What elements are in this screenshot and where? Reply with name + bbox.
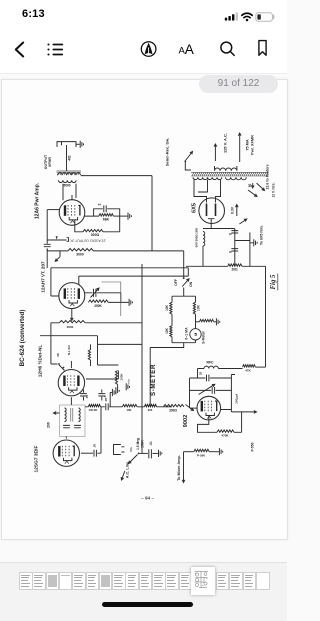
svg-text:9002: 9002 [183,415,189,427]
resistor R12 [85,404,101,406]
capacitor C10b IF [74,425,81,427]
meter M1 0-1 MA [195,322,197,329]
wire V4 grid top [70,361,72,368]
svg-text:S-Meter: S-Meter [201,330,205,343]
svg-text:RFC: RFC [207,361,215,365]
resistor R5 volume pot [59,320,85,322]
coil L2 RFC [198,366,243,368]
svg-text:5000: 5000 [63,184,70,188]
wire R11b to output node [234,412,242,432]
transformer T2 HV secondary winding [193,177,222,179]
wire HV secondary to V2 plates [194,180,221,203]
wire right vertical x128.9 [128,379,130,384]
wire bridge bottom edge [172,342,196,344]
svg-text:6X5: 6X5 [191,203,197,213]
resistor R14 300 ohm [137,404,172,406]
resistor R17 small vertical [88,344,90,366]
svg-text:20Ω: 20Ω [231,268,238,272]
choke L1 filter (vertical coil) [203,232,205,246]
svg-text:35: 35 [199,372,203,376]
svg-text:10K: 10K [126,408,131,412]
wire to ground [214,321,216,323]
wire T3 arrow [54,412,60,415]
wire junction column (node G1) [46,210,48,268]
svg-text:S-METER: S-METER [150,364,157,396]
wire T3 core [71,408,73,422]
wire R1 to ground [113,215,127,217]
wire right vertical (plate column) [231,375,235,412]
wire to mixer amp with arrow [182,452,185,483]
svg-text:75 MA: 75 MA [246,139,250,150]
svg-text:4Ω: 4Ω [67,155,71,160]
svg-text:To 6X5 htrs.: To 6X5 htrs. [260,225,264,245]
wire B+ from T1 to bus (node B+) [81,176,152,251]
svg-text:ON: ON [189,281,193,287]
transformer T1 output primary [58,173,81,175]
ground (screen) [110,389,116,407]
wire pot to vertical bus [85,322,142,324]
wire AC riser with arrow [238,133,241,162]
capacitor C4b bottom of V4 [98,390,105,401]
svg-text:12SG7 3ΩIF: 12SG7 3ΩIF [34,445,40,472]
wire R4 to ground [108,301,128,303]
svg-text:-24V 300Ω 10W: -24V 300Ω 10W [195,228,199,248]
ground (R6) [116,387,119,394]
svg-text:10K: 10K [165,304,169,311]
wire S2 to bridge [183,288,185,297]
ground (V1 screen) [128,213,131,220]
transformer T2 core (laminations) [191,172,268,176]
wire bridge bottom to left bus [150,343,184,348]
svg-text:3000: 3000 [76,253,84,257]
svg-text:.05: .05 [92,444,96,449]
tube V6 9002 detector [197,396,221,420]
wire S1 to primary [185,162,191,170]
svg-text:250K: 250K [94,304,102,308]
svg-text:12.6 to heaters: 12.6 to heaters [265,164,269,189]
svg-text:296: 296 [47,422,51,428]
wire V1 plate top lead [71,195,73,200]
wire B+ rail right [211,229,250,267]
transformer T1 core [57,171,82,172]
svg-text:300Ω: 300Ω [169,409,177,413]
ground (second) [126,383,129,390]
wire S-METER column down [149,348,151,407]
wire pot left to 12H6 switch [51,323,59,364]
tube V3 12AH7 (twin triode) [59,283,85,309]
svg-text:.05: .05 [104,398,108,403]
resistor R8 10K bridge left-bottom [170,326,172,343]
capacitor C5b filter 8uf [231,249,238,251]
svg-text:P-550: P-550 [251,442,255,451]
wire V3 plate to bus C [78,276,80,284]
wire V6 plate to output node [221,410,250,412]
svg-text:10K: 10K [165,327,169,334]
wire R3 to switch bus (busA) [93,250,183,252]
wire row 1 with capacitor C6 [190,375,232,382]
svg-text:– 94 –: – 94 – [141,496,154,501]
ground (filter) [250,239,257,246]
switch S4 AC line [138,453,140,455]
svg-text:6.3V: 6.3V [230,206,234,214]
resistor R4 250K [88,300,108,302]
tube V1 12A6 power amp [59,200,85,226]
wire V2 cathode to filter [203,224,211,229]
svg-text:OUTPUT: OUTPUT [44,154,48,169]
wire V4 right leads [86,344,118,379]
wire bus B [51,268,188,276]
wire V1 grid lead to coupling network [47,209,59,211]
svg-text:47K: 47K [245,369,251,373]
wire choke to bottom rail [202,246,204,266]
tube V4 12H6 detector [58,370,84,396]
ground (jack) [80,141,83,148]
ground (AC line) [159,450,162,457]
wire T1 secondary right lead [75,184,77,198]
resistor R10 47K [243,365,256,367]
wire T1 to plate of V1 [62,184,64,201]
resistor R13 10K [109,404,137,406]
resistor R3 3000 ohm [47,249,93,251]
svg-text:115 V. A.C.: 115 V. A.C. [223,133,228,153]
capacitor C2 coupling [44,244,51,246]
wire B+ line down right side (node B+) [265,266,267,367]
svg-text:100K: 100K [120,373,124,381]
phone jack J1 (output) [57,142,76,147]
svg-text:2: 2 [98,204,102,206]
transformer T3 IF can [60,405,86,437]
capacitor C4a bottom of V4 [80,390,87,401]
wire 6.3V arrow [235,205,238,217]
wire bottom PSU rail [186,265,266,267]
svg-text:BC-624 (converted): BC-624 (converted) [19,310,26,367]
wire V1 cathode down [75,220,83,232]
wire heater leads with arrows (to heaters) [251,183,254,188]
svg-text:12 V. htrs.: 12 V. htrs. [272,182,276,197]
resistor R2 300 ohm cathode [83,229,103,231]
svg-text:.01: .01 [149,441,153,446]
resistor R7 10K bridge left-top [170,296,172,326]
switch S1 send-receive lever [186,152,193,161]
transformer T2 heater secondary winding [226,177,247,180]
wire R18 right to ground [209,451,219,453]
wire V3 cathode arrow to pot [70,309,73,321]
wire RFC down to tuned circuit [197,369,199,379]
svg-text:100K: 100K [141,439,145,447]
svg-text:3000: 3000 [67,325,74,329]
wire R2 to junction [103,216,120,232]
switch S3 contacts [58,363,60,365]
ground (mixer branch) [219,448,222,455]
capacitor C3 coupling with arrow [85,289,121,303]
wire V6 cathode network [198,416,218,433]
svg-text:On: On [129,447,133,451]
wire to output jack [47,239,66,241]
svg-text:12A6 Pwr Amp.: 12A6 Pwr Amp. [35,182,41,219]
svg-text:12H6 ½Det-NL: 12H6 ½Det-NL [37,345,44,378]
svg-text:100μμf: 100μμf [235,394,239,404]
wire bridge tap to sensitivity pot [196,321,200,323]
capacitor C1 grid cap 2uf branch [94,205,120,216]
wire AC line arrow [121,471,125,480]
svg-text:1⁄2 AUDIO OUTPUT JK: 1⁄2 AUDIO OUTPUT JK [69,238,105,242]
svg-text:8: 8 [229,251,233,253]
svg-text:M: M [194,333,198,336]
capacitor C9 .05 [101,403,109,410]
svg-text:N.L.5m: N.L.5m [67,345,71,355]
wire output arrow [250,411,257,414]
capacitor C5a filter 8uf [231,231,238,233]
wire row 2 with trimmer C7 [190,387,232,394]
capacitor C10a IF [63,425,70,427]
wire C8 to ground [152,452,158,454]
resistor R1 68K [85,214,114,216]
svg-text:To Mixer Amp.: To Mixer Amp. [177,455,181,481]
svg-text:1W RF: 1W RF [89,408,98,412]
resistor R15 20 ohm [228,264,242,266]
wire vertical bus left (node AVC) [141,264,143,453]
svg-text:12AH7 VT. 207: 12AH7 VT. 207 [40,261,45,293]
svg-text:1.5 Meg: 1.5 Meg [136,438,140,450]
ground (V3) [129,299,132,306]
resistor R16 sensitivity [199,319,213,321]
plug P1 AC line [114,445,125,455]
resistor R9 10K bridge right-top [193,296,195,322]
svg-text:Pwr. XFMR: Pwr. XFMR [251,135,255,155]
svg-text:.05: .05 [85,395,89,400]
svg-text:A.C. Line: A.C. Line [126,462,130,478]
wire primary to switch arrow [214,144,217,161]
ground arrow (grid leak) [59,251,61,257]
wire bridge top edge [172,295,196,297]
wire secondary center tap [198,180,208,192]
junction arrow [56,236,58,239]
ground arrow (AVC row) [186,405,194,411]
wire junction to capacitor C8 [142,452,148,454]
wire V3 grid lead from bus B corner [51,268,59,296]
svg-text:0–1 MA: 0–1 MA [185,327,189,340]
capacitor C11 [94,450,96,457]
svg-text:Send–Rec. Sw.: Send–Rec. Sw. [164,138,169,166]
resistor R18 P-590 [194,449,209,451]
wire T3 to V5 grid [65,437,67,439]
svg-text:300Ω: 300Ω [91,233,100,237]
svg-text:P-590: P-590 [197,454,205,458]
svg-text:Fig 5: Fig 5 [270,274,277,290]
svg-text:XFMR: XFMR [48,157,52,167]
resistor R11b 470K [217,430,234,432]
wire V5 plate right [81,452,93,454]
wire bus C [79,275,189,277]
transformer T2 primary winding [215,166,237,171]
wire speaker lead 4-ohm [66,145,68,171]
wire left vertical (grid column) [189,378,191,408]
wire jack to ground [76,143,80,145]
resistor R19 300 ohm AVC [164,404,184,406]
capacitor C8 .01 [149,449,152,458]
wire V6 grid lead [190,407,198,409]
tube V2 6X5 rectifier [199,198,225,224]
svg-text:OFF: OFF [174,279,178,286]
svg-text:3K: 3K [56,352,60,357]
resistor R6 100K vertical [115,371,117,385]
jack J2 audio output [67,238,69,242]
wire V4 bottom to IF transformer [70,397,72,405]
transformer T3 secondary coil [79,408,81,422]
wire arrow to 6X5 heaters [239,219,246,224]
svg-text:8: 8 [229,233,233,235]
transformer T3 primary coil [65,408,67,422]
transformer T1 secondary [59,180,77,182]
ground (bridge) [216,318,219,325]
svg-text:300: 300 [148,408,153,412]
wire shield box [101,282,120,316]
svg-text:470K: 470K [221,434,229,438]
wire Fig 5 underline [277,274,279,291]
svg-text:10K: 10K [197,304,201,311]
wire to mixer amp branch [184,451,194,453]
svg-text:68K: 68K [103,218,110,222]
switch S2 on-off [183,251,185,277]
wire bus 6 [40,336,142,345]
tube V5 12SG7 3rd IF [53,440,79,466]
